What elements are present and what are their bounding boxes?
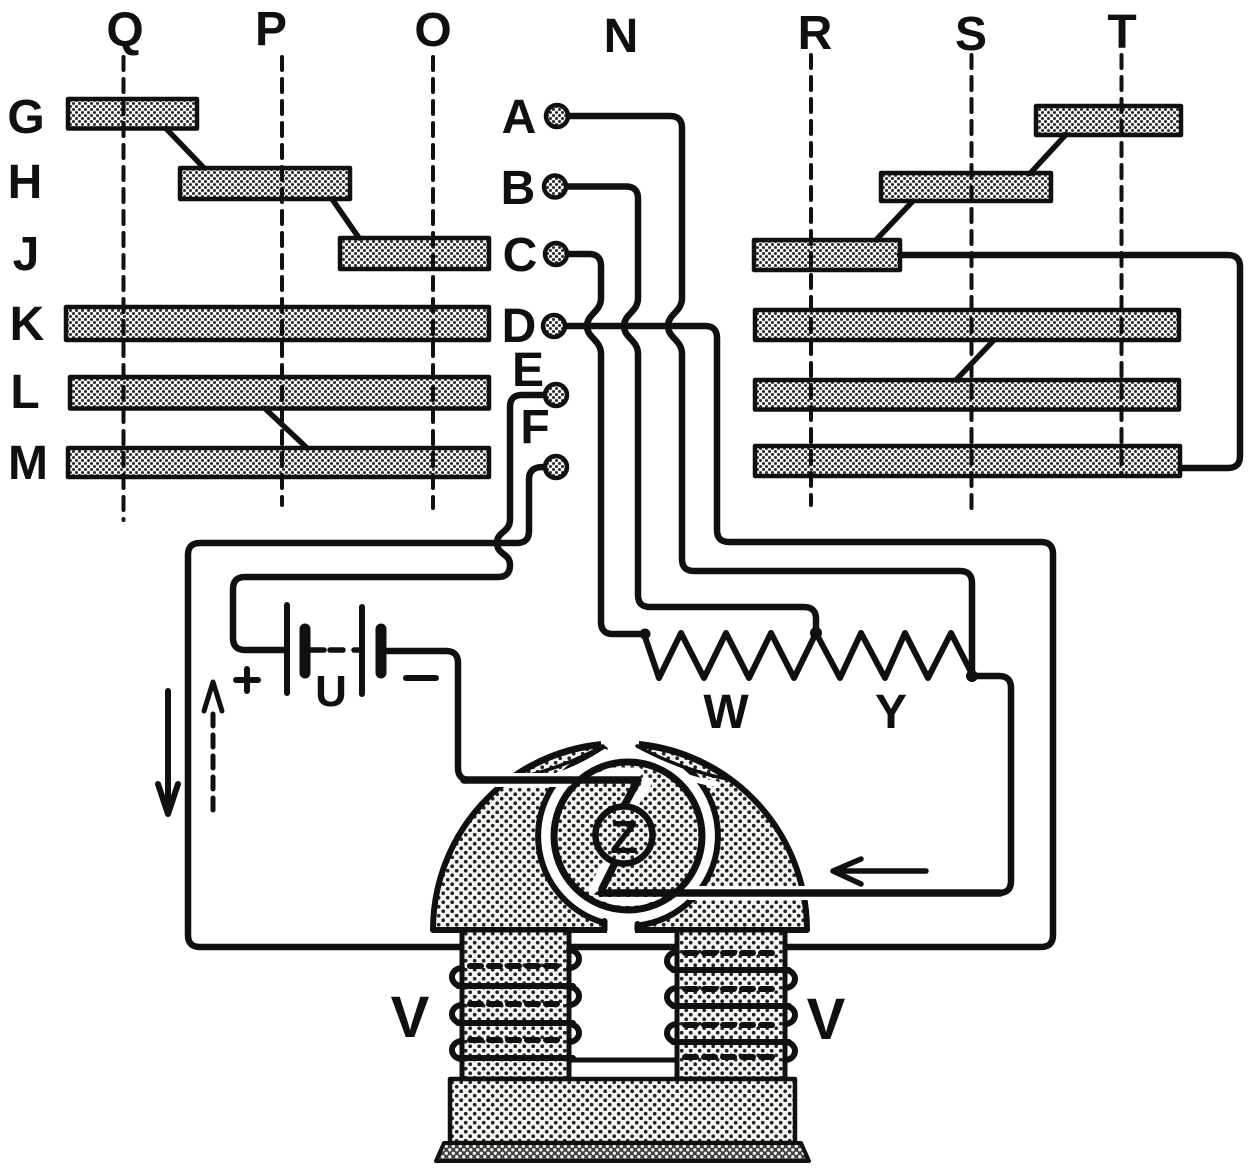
wire D to F through outer loop (188, 326, 1053, 947)
svg-text:A: A (502, 91, 537, 144)
key bar T-row (1036, 106, 1181, 135)
terminal A (546, 105, 568, 127)
svg-text:U: U (315, 667, 347, 716)
battery U plate 2 short (300, 629, 311, 673)
wire casing into rotor (480, 773, 566, 787)
Z lower bar and wire out (601, 861, 1000, 893)
svg-text:Y: Y (875, 686, 907, 739)
key bar G (68, 99, 197, 129)
svg-text:G: G (7, 91, 44, 144)
resistor W Y zigzag (644, 633, 973, 678)
guide line O (431, 57, 435, 508)
battery U plate 1 long (284, 605, 290, 693)
coil windings left leg (452, 950, 579, 1059)
top gap between pole tips (601, 736, 639, 764)
guide line Q (122, 57, 126, 520)
terminal B (544, 176, 566, 198)
key bar M-right (755, 446, 1180, 476)
guide line T (1120, 55, 1124, 475)
key bar K (66, 307, 489, 340)
svg-text:L: L (10, 366, 39, 419)
svg-text:E: E (512, 344, 544, 397)
svg-text:C: C (503, 229, 538, 282)
cavity around rotor (538, 746, 718, 926)
svg-text:Q: Q (106, 4, 143, 57)
svg-text:Z: Z (610, 811, 638, 863)
svg-text:O: O (414, 4, 451, 57)
svg-text:F: F (520, 401, 549, 454)
wire C to resistor left end (569, 254, 644, 634)
connector Kr-Lr (956, 340, 994, 380)
pole slot left (white) (524, 752, 605, 784)
svg-text:M: M (8, 437, 48, 490)
battery plus sign (236, 669, 258, 691)
rotor disc Z (554, 762, 702, 910)
rotor channel white bottom (600, 897, 708, 906)
magnet frame dome (433, 743, 807, 930)
battery U plate 3 long (359, 607, 365, 694)
wire B to resistor mid junction (568, 187, 816, 634)
svg-text:S: S (955, 8, 987, 61)
connector H-J (332, 199, 359, 238)
key bar S-row (881, 173, 1051, 201)
yoke wire between coils (569, 1058, 677, 1063)
arrow up dashed (211, 714, 216, 815)
guide line S (970, 55, 974, 510)
terminal C (545, 243, 567, 265)
key bar M (68, 448, 489, 477)
arrow left near magnet (833, 859, 926, 884)
key bar J (340, 238, 489, 269)
wire into rotor and Z upper bar (464, 780, 638, 808)
magnet sole plate (436, 1143, 809, 1161)
resistor left end dot (640, 629, 651, 640)
rotor channel white left of lower diagonal (593, 860, 609, 889)
pole tip horn left (513, 746, 603, 779)
rotor hub circle (596, 807, 653, 864)
wire casing out of rotor (690, 886, 810, 900)
key bar R-row (754, 240, 900, 270)
connector S-T (1030, 135, 1066, 174)
svg-text:W: W (703, 686, 749, 739)
svg-text:V: V (807, 987, 846, 1052)
coil leg right (677, 930, 785, 1079)
terminal D (543, 315, 565, 337)
magnet base block (450, 1079, 795, 1143)
wire E to battery positive (233, 395, 543, 650)
coil leg left (462, 930, 569, 1079)
coil windings right leg (667, 952, 795, 1060)
arrow down solid (158, 691, 178, 814)
battery U plate 4 short (376, 629, 387, 673)
wire resistor right end to rotor (700, 676, 1011, 893)
battery minus sign (406, 675, 436, 681)
svg-text:B: B (501, 162, 536, 215)
wire R bar to M-right bar (900, 255, 1240, 468)
cavity wall arc right (637, 749, 717, 925)
wire A to resistor right end (570, 116, 972, 676)
pole tip horn right (637, 746, 727, 779)
cavity wall arc left (538, 749, 605, 923)
svg-text:T: T (1107, 6, 1136, 59)
terminal F (545, 456, 567, 478)
connector L-M (265, 409, 307, 449)
svg-text:H: H (8, 156, 43, 209)
svg-text:P: P (255, 3, 287, 56)
key bar K-right (755, 310, 1179, 340)
connector G-H (166, 129, 204, 169)
guide line R (809, 55, 813, 505)
svg-text:J: J (13, 228, 40, 281)
bottom channel (607, 902, 635, 934)
rotor channel white top (540, 768, 638, 777)
wire battery negative to rotor (386, 651, 560, 780)
svg-text:R: R (798, 7, 833, 60)
key bar H (180, 168, 350, 199)
key bar L (70, 377, 489, 409)
key bar L-right (755, 380, 1179, 410)
resistor mid junction dot (810, 627, 822, 639)
resistor right end dot (966, 670, 978, 682)
svg-text:V: V (391, 985, 430, 1050)
connector R-S (876, 201, 913, 240)
rotor channel white right of upper diagonal (630, 782, 648, 810)
svg-text:N: N (604, 10, 639, 63)
svg-text:K: K (10, 298, 45, 351)
guide line P (280, 57, 284, 505)
terminal E (545, 384, 567, 406)
battery U center dashes (311, 647, 360, 653)
pole slot right (white) (635, 752, 716, 784)
